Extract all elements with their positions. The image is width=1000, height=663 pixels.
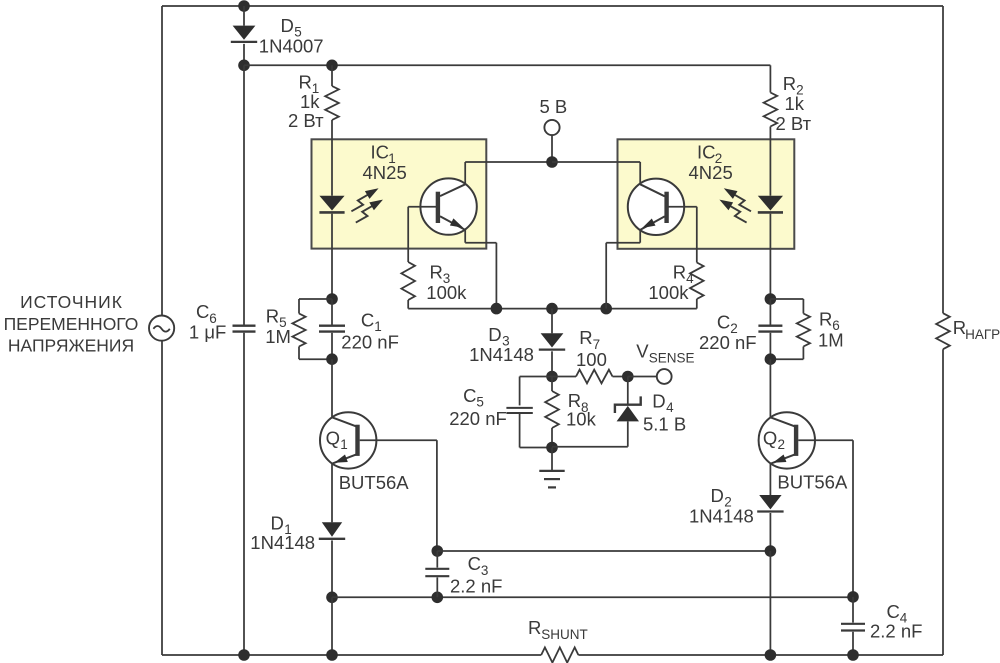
label D3 value 1N4148 — [469, 344, 534, 365]
wire R6 bottom stub — [770, 358, 803, 360]
svg-text:НАПРЯЖЕНИЯ: НАПРЯЖЕНИЯ — [8, 335, 134, 355]
opto transistor IC2 emitter diagonal — [640, 216, 665, 230]
wire D3 anode lead — [551, 309, 553, 334]
label R1 value 1k — [300, 91, 320, 112]
wire C4 top lead — [852, 597, 854, 623]
wire R5 top stub — [299, 298, 332, 300]
svg-text:R: R — [783, 73, 796, 94]
wire rail 2 (y=65) — [244, 64, 770, 66]
node D2 / y551 wire — [765, 545, 777, 557]
wire IC1 emitter down — [464, 230, 466, 243]
resistor R_SHUNT — [541, 647, 578, 662]
wire Q1 base drop — [436, 440, 438, 551]
wire R4 top lead — [696, 207, 698, 263]
wire y597 run — [332, 596, 853, 598]
label D4 subscript — [666, 400, 674, 415]
svg-text:R: R — [430, 261, 443, 282]
wire D4 anode lead — [627, 421, 629, 446]
wire IC1 base lead — [408, 206, 436, 208]
node Vsense / D4 — [622, 371, 634, 383]
label R1 subscript — [312, 81, 320, 96]
resistor R2 1k 2W — [764, 93, 778, 127]
label R2 value 1k — [785, 93, 805, 114]
svg-text:5 В: 5 В — [540, 96, 568, 117]
wire C6 column lower — [243, 333, 245, 655]
label R1 designator — [299, 71, 312, 92]
diode D5 1N4007 — [231, 26, 257, 42]
transistor Q2 emitter arrow — [773, 455, 787, 463]
svg-text:1N4007: 1N4007 — [259, 35, 324, 56]
wire collector rail right (to IC2) — [552, 161, 640, 163]
svg-text:D: D — [711, 485, 724, 506]
label IC2 designator — [697, 142, 716, 163]
svg-text:1N4148: 1N4148 — [250, 532, 315, 553]
label IC1 subscript — [388, 151, 396, 166]
node 5V / collector rail — [546, 156, 558, 168]
label D3 designator — [488, 324, 501, 345]
svg-text:2: 2 — [778, 437, 786, 452]
wire Q2 base drop — [852, 440, 854, 597]
wire IC2 emitter down — [639, 230, 641, 243]
label D1 designator — [271, 513, 284, 534]
label C3 subscript — [481, 563, 489, 578]
opto transistor IC1 base bar — [436, 192, 440, 223]
label R7 designator — [579, 327, 592, 348]
node D1 column / bottom rail — [326, 649, 338, 661]
wire R5 bottom lead — [298, 347, 300, 360]
wire R1 top lead — [331, 65, 333, 86]
svg-text:2.2 nF: 2.2 nF — [450, 576, 502, 597]
transistor Q2 base bar — [794, 425, 798, 456]
resistor R1 1k 2W — [325, 86, 339, 120]
resistor R7 100 — [576, 370, 613, 384]
label R6 designator — [819, 308, 832, 329]
diode D1 1N4148 — [319, 522, 345, 539]
wire IC1 collector up — [464, 162, 466, 185]
label D5 subscript — [294, 25, 302, 40]
wire C5 bottom lead — [519, 413, 521, 448]
label C6 value 1uF — [189, 322, 226, 343]
svg-text:R: R — [579, 327, 592, 348]
ground bar 1 — [539, 470, 564, 472]
svg-text:100k: 100k — [426, 282, 467, 303]
wire C1 top lead — [331, 299, 333, 325]
label R3 designator — [430, 261, 443, 282]
svg-text:D: D — [488, 324, 501, 345]
wire C3 bottom lead — [436, 577, 438, 597]
wire D5 anode — [243, 6, 245, 26]
svg-text:D: D — [271, 513, 284, 534]
label IC2 value 4N25 — [689, 162, 733, 183]
label C6 designator — [196, 301, 209, 322]
wire C5 top stub — [520, 376, 552, 378]
label R2 subscript — [796, 82, 804, 97]
label R_load subscript HAGR — [965, 327, 1000, 342]
label Vsense subscript — [649, 350, 695, 365]
wire y597 to bottom (D1 column) — [331, 597, 333, 655]
opto transistor IC1 collector diagonal — [440, 184, 465, 196]
transistor Q1 base bar — [355, 425, 359, 456]
wire IC1 emitter across — [465, 242, 496, 244]
label R_SHUNT designator — [528, 617, 541, 638]
node ground — [546, 442, 558, 454]
node D3 / rail — [546, 303, 558, 315]
svg-text:4N25: 4N25 — [689, 162, 733, 183]
svg-text:220 nF: 220 nF — [341, 331, 399, 352]
svg-text:C: C — [717, 312, 730, 333]
LED IC1 cathode bar — [319, 211, 344, 214]
wire C2 top lead — [769, 299, 771, 325]
resistor R4 100k — [690, 263, 704, 300]
wire top rail — [162, 5, 943, 7]
label Q1 value BUT56A — [339, 472, 410, 493]
label R7 subscript — [593, 337, 601, 352]
label R5 designator — [266, 306, 279, 327]
wire IC1 emitter drop — [495, 243, 497, 309]
opto transistor IC1 emitter diagonal — [440, 216, 465, 230]
svg-text:220 nF: 220 nF — [449, 408, 507, 429]
svg-text:V: V — [636, 340, 649, 361]
label AC source line 3 — [8, 335, 134, 355]
svg-text:1k: 1k — [300, 91, 320, 112]
AC source sine wave — [153, 326, 169, 332]
wire bottom rail (left of R_SHUNT) — [162, 654, 541, 656]
resistor R6 1M — [797, 314, 810, 347]
svg-text:D: D — [281, 15, 294, 36]
opto-isolator IC2 4N25 package box — [618, 139, 795, 249]
node D1 / y597 wire — [326, 592, 338, 604]
node rail2 / R1 — [326, 60, 338, 72]
opto transistor IC1 circle — [420, 178, 476, 234]
wire Q1 base lead — [360, 439, 437, 441]
photon arrow IC1 a — [351, 188, 378, 211]
label D2 value 1N4148 — [689, 505, 754, 526]
label D5 designator — [281, 15, 294, 36]
label IC2 subscript — [715, 151, 723, 166]
svg-text:1 μF: 1 μF — [189, 322, 226, 343]
svg-text:R: R — [819, 308, 832, 329]
node D5 / rail 2 — [238, 60, 250, 72]
label AC source line 1 — [20, 292, 123, 312]
label R5 subscript — [279, 315, 287, 330]
capacitor C1 220nF — [319, 326, 345, 332]
capacitor C4 2.2nF — [841, 624, 865, 631]
label Q1 designator — [326, 428, 340, 449]
svg-text:R: R — [528, 617, 541, 638]
label R1 value 2W — [288, 110, 324, 131]
wire y551 run — [437, 550, 770, 552]
transistor Q1 collector diagonal — [332, 417, 356, 426]
svg-text:1N4148: 1N4148 — [689, 505, 754, 526]
svg-text:IC: IC — [697, 142, 716, 163]
wire R5 top lead — [298, 299, 300, 314]
label R_load designator — [953, 317, 966, 338]
svg-text:R: R — [266, 306, 279, 327]
opto transistor IC1 emitter arrow — [450, 218, 463, 227]
svg-text:1N4148: 1N4148 — [469, 344, 534, 365]
label C3 designator — [468, 553, 481, 574]
label C2 value 220nF — [699, 332, 757, 353]
wire IC2 collector up — [639, 162, 641, 185]
resistor R8 10k — [545, 391, 559, 428]
wire R6 top stub — [770, 298, 803, 300]
svg-text:Q: Q — [763, 428, 777, 449]
label R5 value 1M — [265, 326, 291, 347]
wire R3 bottom lead — [407, 300, 409, 309]
svg-text:R: R — [299, 71, 312, 92]
capacitor C6 1uF — [233, 326, 256, 332]
wire IC2 base lead — [669, 206, 697, 208]
wire C5 bottom stub — [520, 447, 552, 449]
node D3 / R7 / C5 / R8 — [546, 371, 558, 383]
node C3 bottom — [432, 592, 444, 604]
wire R7 right stub — [613, 376, 628, 378]
wire R1 to LED IC1 — [331, 120, 333, 196]
node junction top rail / D5 — [238, 0, 250, 12]
label R8 designator — [568, 390, 581, 411]
svg-text:IC: IC — [371, 142, 390, 163]
wire IC1 collector to 5V node — [465, 161, 552, 163]
label IC1 value 4N25 — [363, 162, 407, 183]
wire IC2 emitter drop — [605, 243, 607, 309]
resistor R_load (R_HAGR) — [936, 313, 950, 349]
transistor Q2 circle — [759, 412, 815, 468]
wire R2 top lead — [769, 65, 771, 92]
label C1 designator — [361, 310, 374, 331]
label R3 value 100k — [426, 282, 467, 303]
zener D4 cathode bar — [615, 396, 641, 413]
svg-text:BUT56A: BUT56A — [339, 472, 410, 493]
node C4 top / Q2 base / y597 — [847, 591, 859, 603]
wire R8 top lead — [551, 377, 553, 392]
transistor Q2 collector diagonal — [770, 417, 794, 426]
wire C6 column upper — [243, 65, 245, 324]
node IC1 emitter / rail — [491, 303, 503, 315]
wire C3 top lead — [436, 551, 438, 568]
wire R4 bottom lead — [696, 299, 698, 309]
svg-text:1k: 1k — [785, 93, 805, 114]
node C2 top — [765, 293, 777, 305]
node C1 top — [326, 293, 338, 305]
svg-text:10k: 10k — [566, 409, 597, 430]
label D4 designator — [652, 391, 665, 412]
svg-text:D: D — [652, 391, 665, 412]
opto transistor IC2 emitter arrow — [642, 219, 655, 229]
resistor R3 100k — [401, 262, 415, 300]
label R4 designator — [673, 261, 686, 282]
photon arrow IC2 b — [719, 200, 746, 223]
svg-text:C: C — [887, 601, 900, 622]
wire Vsense lead — [628, 376, 657, 378]
svg-text:C: C — [463, 385, 476, 406]
wire right rail (upper) — [942, 6, 944, 313]
label C5 value 220nF — [449, 408, 507, 429]
wire right rail (lower) — [942, 349, 944, 655]
ground stub — [551, 448, 553, 471]
svg-text:2 Вт: 2 Вт — [776, 113, 812, 134]
opto transistor IC2 collector diagonal — [640, 184, 665, 196]
opto transistor IC2 base bar — [664, 192, 668, 223]
label Q2 value BUT56A — [777, 471, 848, 492]
svg-text:Q: Q — [326, 428, 340, 449]
label AC source line 2 — [4, 314, 139, 334]
svg-text:SHUNT: SHUNT — [541, 627, 588, 642]
svg-text:5.1 В: 5.1 В — [643, 413, 686, 434]
label D2 designator — [711, 485, 724, 506]
label C5 subscript — [476, 394, 484, 409]
diode D3 1N4148 — [539, 333, 565, 349]
svg-text:SENSE: SENSE — [649, 350, 695, 365]
wire IC2 emitter across — [606, 242, 640, 244]
label C6 subscript — [209, 311, 217, 326]
label R6 subscript — [832, 318, 840, 333]
label Q2 subscript — [778, 437, 786, 452]
capacitor C5 220nF — [506, 408, 532, 413]
wire D4 to ground node — [552, 446, 628, 448]
wire R6 top lead — [802, 299, 804, 314]
label R8 value 10k — [566, 409, 597, 430]
svg-text:100: 100 — [576, 349, 607, 370]
LED IC1 anode triangle — [319, 196, 344, 211]
wire C5 top lead — [519, 377, 521, 406]
label D1 value 1N4148 — [250, 532, 315, 553]
svg-text:C: C — [361, 310, 374, 331]
label IC1 designator — [371, 142, 390, 163]
wire Q2 collector from C2 — [769, 359, 771, 417]
wire Q1 collector from C1 — [331, 359, 333, 417]
wire R2 to LED IC2 — [769, 127, 771, 196]
wire 100k rail — [408, 308, 697, 310]
svg-text:C: C — [196, 301, 209, 322]
label R7 value 100 — [576, 349, 607, 370]
node C3 top / Q1 base — [432, 545, 444, 557]
diode D2 1N4148 — [757, 495, 783, 512]
wire D4 cathode lead — [627, 377, 629, 404]
svg-text:100k: 100k — [648, 282, 689, 303]
wire Q2 base lead — [798, 439, 853, 441]
label R8 subscript — [581, 400, 589, 415]
wire R6 bottom lead — [802, 347, 804, 360]
label C2 designator — [717, 312, 730, 333]
terminal 5V circle — [544, 120, 559, 135]
svg-text:НАГР: НАГР — [965, 327, 1000, 342]
label D1 subscript — [284, 522, 292, 537]
label 5V supply — [540, 96, 568, 117]
node C1 bottom — [326, 353, 338, 365]
LED IC2 anode triangle — [758, 196, 783, 211]
photon arrow IC1 b — [356, 200, 383, 223]
wire C4 bottom lead — [852, 632, 854, 655]
capacitor C2 220nF — [758, 326, 782, 332]
label Q2 designator — [763, 428, 777, 449]
resistor R5 1M — [292, 314, 305, 347]
svg-text:R: R — [673, 261, 686, 282]
wire R3 top lead — [407, 207, 409, 262]
svg-text:ИСТОЧНИК: ИСТОЧНИК — [20, 292, 123, 312]
wire 5V stub — [551, 135, 553, 162]
svg-text:C: C — [468, 553, 481, 574]
wire D5 cathode to node — [243, 44, 245, 65]
label R3 subscript — [443, 271, 451, 286]
svg-text:1M: 1M — [818, 330, 844, 351]
label C4 designator — [887, 601, 900, 622]
transistor Q2 emitter diagonal — [771, 455, 794, 464]
LED IC2 cathode bar — [758, 211, 783, 214]
label R4 value 100k — [648, 282, 689, 303]
ground bar 2 — [544, 478, 560, 480]
capacitor C3 2.2nF — [425, 569, 449, 576]
label R_SHUNT subscript — [541, 627, 588, 642]
svg-text:2.2 nF: 2.2 nF — [870, 621, 922, 642]
label C5 designator — [463, 385, 476, 406]
label C3 value 2.2nF — [450, 576, 502, 597]
wire C2 bottom lead — [769, 333, 771, 359]
transistor Q1 circle — [320, 412, 376, 468]
zener D4 5.1V triangle — [617, 406, 639, 422]
label R2 value 2W — [776, 113, 812, 134]
wire D3 cathode lead — [551, 351, 553, 376]
photon arrow IC2 a — [724, 188, 751, 211]
node C4 / bottom rail — [847, 649, 859, 661]
node D2 column / bottom rail — [765, 649, 777, 661]
svg-text:220 nF: 220 nF — [699, 332, 757, 353]
label C2 subscript — [730, 321, 738, 336]
AC source circle — [149, 316, 174, 341]
label D2 subscript — [724, 495, 732, 510]
svg-text:4N25: 4N25 — [363, 162, 407, 183]
wire R8 bottom lead — [551, 428, 553, 448]
wire R7 left stub — [552, 376, 576, 378]
label C4 subscript — [900, 610, 908, 625]
svg-text:ПЕРЕМЕННОГО: ПЕРЕМЕННОГО — [4, 314, 139, 334]
svg-text:BUT56A: BUT56A — [777, 471, 848, 492]
node C2 bottom — [765, 353, 777, 365]
wire bottom rail (right of R_SHUNT) — [578, 654, 943, 656]
label R6 value 1M — [818, 330, 844, 351]
wire D2 cathode lead — [769, 513, 771, 551]
svg-text:2 Вт: 2 Вт — [288, 110, 324, 131]
wire C1 bottom lead — [331, 333, 333, 359]
transistor Q1 emitter diagonal — [333, 455, 356, 464]
wire LED IC2 cathode lead — [769, 214, 771, 299]
label D3 subscript — [502, 334, 510, 349]
label D5 value 1N4007 — [259, 35, 324, 56]
label D4 value 5.1V — [643, 413, 686, 434]
label C1 subscript — [374, 319, 382, 334]
wire D2 column to bottom — [769, 551, 771, 655]
svg-text:1: 1 — [340, 437, 348, 452]
opto transistor IC2 circle — [628, 179, 684, 235]
label C4 value 2.2nF — [870, 621, 922, 642]
ground bar 3 — [548, 486, 556, 488]
label Q1 subscript — [340, 437, 348, 452]
svg-text:1M: 1M — [265, 326, 291, 347]
wire R5 bottom stub — [299, 358, 332, 360]
wire LED IC1 cathode lead — [331, 214, 333, 299]
wire D1 cathode lead — [331, 540, 333, 597]
opto-isolator IC1 4N25 package box — [312, 139, 487, 248]
label Vsense designator — [636, 340, 649, 361]
transistor Q1 emitter arrow — [334, 455, 348, 463]
wire Q2 emitter down — [769, 463, 771, 495]
wire Q1 emitter down — [331, 463, 333, 522]
node IC2 emitter / rail — [600, 303, 612, 315]
label C1 value 220nF — [341, 331, 399, 352]
wire left rail (lower) — [161, 341, 163, 655]
terminal Vsense circle — [657, 369, 672, 384]
node C6 / bottom rail — [238, 649, 250, 661]
label R2 designator — [783, 73, 796, 94]
